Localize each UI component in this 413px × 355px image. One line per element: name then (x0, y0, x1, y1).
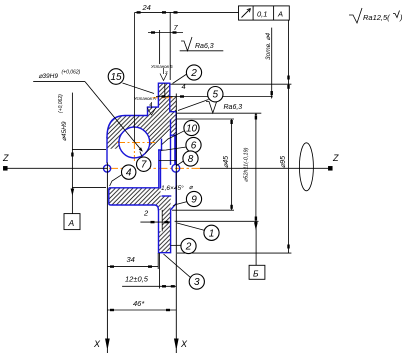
svg-text:2: 2 (190, 68, 197, 79)
svg-text:5: 5 (213, 90, 219, 101)
svg-text:1: 1 (209, 228, 215, 239)
svg-text:6: 6 (191, 141, 197, 152)
svg-text:8: 8 (188, 154, 194, 165)
svg-text:X: X (93, 339, 101, 349)
svg-text:X: X (180, 339, 188, 349)
svg-text:⌀45: ⌀45 (223, 156, 230, 168)
svg-text:4: 4 (182, 82, 186, 91)
svg-text:1,6×45°: 1,6×45° (161, 184, 184, 192)
svg-text:12±0,5: 12±0,5 (125, 275, 149, 284)
svg-text:3отв. ⌀4: 3отв. ⌀4 (265, 32, 272, 60)
svg-text:Z: Z (2, 153, 9, 163)
svg-text:34: 34 (127, 255, 135, 264)
svg-text:(+0,062): (+0,062) (62, 70, 81, 76)
svg-text:⌀52h11(-0,19): ⌀52h11(-0,19) (244, 147, 250, 182)
svg-text:Установ Б: Установ Б (151, 64, 173, 69)
svg-text:Ra6,3: Ra6,3 (195, 43, 214, 50)
svg-text:Ra12,5(: Ra12,5( (363, 13, 391, 22)
svg-text:15: 15 (110, 72, 122, 83)
svg-text:4: 4 (126, 168, 132, 179)
svg-text:A: A (277, 10, 283, 19)
svg-text:0,1: 0,1 (257, 10, 267, 19)
svg-text:46*: 46* (133, 299, 145, 308)
svg-text:10: 10 (186, 124, 198, 135)
svg-text:2: 2 (185, 242, 192, 253)
svg-text:Z: Z (332, 153, 339, 163)
svg-text:A: A (68, 218, 75, 228)
svg-text:⌀95: ⌀95 (280, 156, 287, 168)
svg-text:⌀39H9: ⌀39H9 (39, 73, 59, 80)
svg-text:Установ А: Установ А (134, 96, 156, 101)
svg-text:⌀45H9: ⌀45H9 (61, 121, 68, 141)
svg-text:7: 7 (141, 160, 147, 171)
svg-text:3: 3 (194, 277, 200, 288)
svg-text:9: 9 (191, 195, 197, 206)
svg-text:): ) (399, 13, 403, 22)
svg-text:2: 2 (143, 209, 149, 218)
svg-text:Ra6,3: Ra6,3 (224, 104, 243, 111)
svg-text:(+0,062): (+0,062) (58, 94, 64, 113)
svg-text:Б: Б (253, 269, 259, 279)
svg-text:24: 24 (142, 3, 151, 12)
